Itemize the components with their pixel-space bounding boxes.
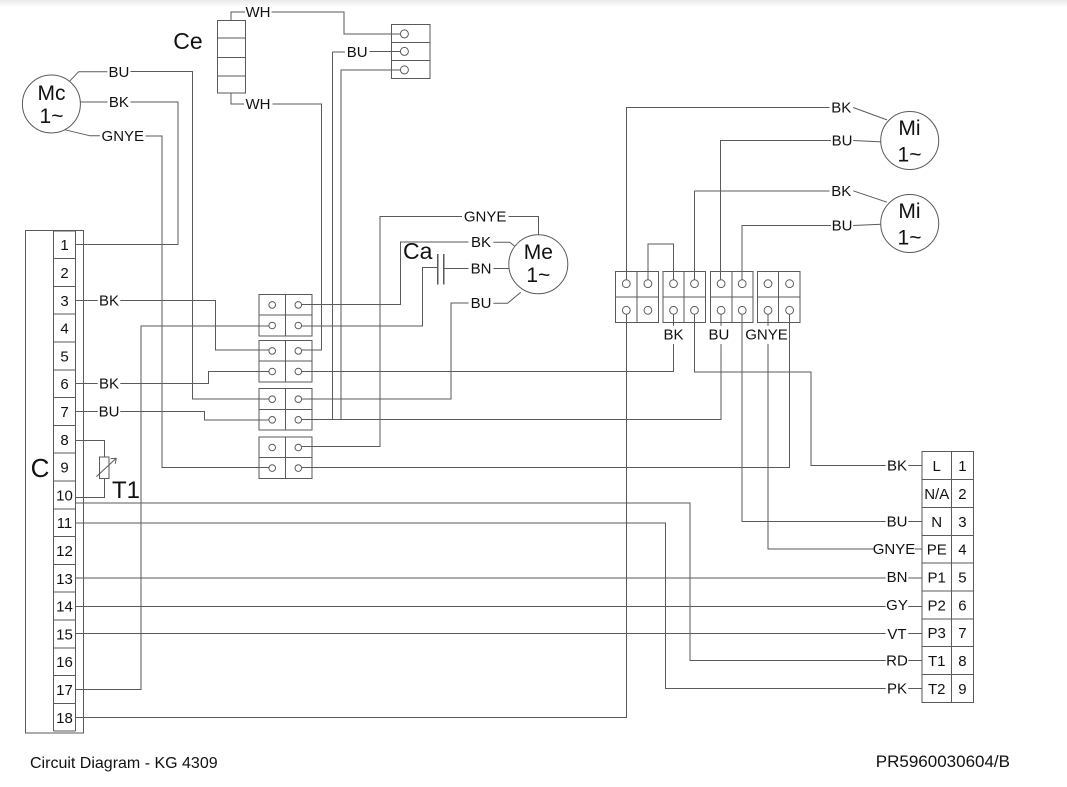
label BK row6 [98,375,121,393]
svg-text:1: 1 [60,237,68,254]
capacitor Ca plates [438,254,444,285]
terminal block TB3 [259,389,312,431]
label PK [886,680,909,698]
svg-text:GY: GY [886,597,908,614]
wire C row11 to PK T2-9 [76,523,923,689]
svg-text:9: 9 [958,681,966,698]
svg-text:8: 8 [60,432,68,449]
label BU at Mi1 [832,133,853,150]
wire TB1 pin2 to T1 net (row17) [76,326,270,690]
wire TB4 pin4 to block D riser [302,314,790,467]
connector CN1 (3 pins) [392,25,430,79]
label GNYE at Mc [102,128,145,145]
wire WH bottom run (to TB2 pin) [273,104,322,350]
svg-text:2: 2 [60,265,68,282]
wire C row13 to BN P1-5 [76,577,923,579]
wire Mc GNYE run (down to TB4) [146,136,269,468]
wire block B right to BK L1 [695,314,923,465]
svg-text:BU: BU [832,218,853,235]
svg-text:4: 4 [958,542,966,559]
wire TB4 pin2-right to GNYE Me [302,217,462,447]
svg-text:3: 3 [60,293,68,310]
label BK row3 [98,292,121,310]
wire Mc BK run (to C row1) [76,102,179,245]
label BK at Me [471,234,491,251]
motor Mi2 circle [881,195,939,253]
wire T1 to C row10 [76,478,105,497]
wire BU Mi2 right [853,224,881,225]
strip C pin numbers 1-18 [56,237,73,727]
svg-text:BK: BK [99,292,119,309]
svg-text:6: 6 [958,597,966,614]
terminal block TB2 [259,340,312,382]
svg-text:15: 15 [56,626,73,643]
motor Me circle [509,235,568,294]
svg-text:Me: Me [524,241,553,264]
svg-text:GNYE: GNYE [102,128,145,145]
wire C row8 to T1 [76,441,105,458]
svg-text:6: 6 [60,376,68,393]
label GNYE at Me [464,209,507,226]
svg-text:9: 9 [60,460,68,477]
wire block D left to GNYE PE4 [768,314,922,549]
svg-text:5: 5 [958,570,966,587]
wire C row15 to VT P3-7 [76,633,923,635]
caption right [876,752,1010,771]
svg-text:WH: WH [246,96,271,113]
wire BU to Me [493,292,520,303]
label Ca [403,238,433,264]
svg-text:Mi: Mi [898,117,920,140]
svg-text:Ca: Ca [403,238,433,264]
wire CN1 pin3 drop (to BU rail) [341,70,400,420]
svg-text:1~: 1~ [40,105,64,128]
svg-text:BU: BU [887,513,908,530]
wire BU top vertical [333,51,345,53]
wire Mc BU run (down to TB3) [130,72,269,399]
svg-text:BU: BU [347,44,368,61]
svg-text:P3: P3 [928,625,946,642]
label RD [886,652,909,670]
motor Mc circle [22,75,80,133]
svg-text:13: 13 [56,571,73,588]
svg-text:BU: BU [108,64,129,81]
svg-text:N: N [931,514,942,531]
wire GNYE to Me [508,217,538,235]
wire TB1 pin2-right to capacitor [302,268,438,326]
svg-text:T2: T2 [928,681,946,698]
wire C row6 BK to TB2 pin3 [76,372,270,384]
svg-text:BU: BU [99,404,120,421]
strip numbers 1-9 [958,458,966,698]
svg-text:11: 11 [57,515,73,532]
wire Mc BK lead [80,101,107,103]
svg-text:T1: T1 [928,653,946,670]
svg-text:17: 17 [56,682,73,699]
svg-text:PR5960030604/B: PR5960030604/B [876,752,1010,771]
wire TB3 pin2-right to BU Me [302,303,469,399]
thermistor T1 body [96,457,116,478]
svg-text:BK: BK [109,94,129,111]
label BU top [347,44,368,61]
label BK at Mi2 [831,183,851,200]
terminal block D [757,271,800,322]
wire C row7 BU to TB3 pin3 [76,412,270,421]
svg-text:RD: RD [886,653,908,670]
label BU at Mi2 [832,218,853,235]
svg-text:5: 5 [60,348,68,365]
wire capacitor to BN [445,268,469,270]
svg-text:BK: BK [663,327,683,344]
label BU at Mc [108,64,129,81]
svg-text:C: C [31,453,50,483]
wire block C2 right to BU N3 [742,314,922,521]
svg-text:BK: BK [471,234,491,251]
svg-text:BU: BU [708,327,729,344]
label Mi1 [898,117,922,166]
wire BU top drop (to BU rail) [332,52,334,420]
svg-text:1~: 1~ [526,264,550,287]
wire block B left drop (to TB2 net) [673,314,675,372]
label T1 [112,477,140,504]
label Me [524,241,553,287]
wire Mc GNYE lead [65,130,100,136]
svg-text:T1: T1 [112,477,140,504]
svg-text:7: 7 [958,625,966,642]
svg-text:P2: P2 [928,597,946,614]
svg-text:P1: P1 [928,570,946,587]
label BU at Me [471,295,492,312]
wire bridge A-B [648,244,674,280]
label VT [886,625,909,643]
svg-text:GNYE: GNYE [873,541,916,558]
svg-text:2: 2 [958,486,966,503]
terminal block A [616,271,659,322]
wire BU Mi2 left [742,226,831,280]
label GNYE under block D [745,326,788,344]
label BN [886,568,909,586]
strip labels L..T2 [924,458,949,698]
wire TB2 pin4 to right (BU rail riser) [302,314,674,372]
svg-text:GNYE: GNYE [745,327,788,344]
wire Mc BU lead [70,72,108,82]
svg-text:BK: BK [887,458,907,475]
svg-text:L: L [933,458,941,475]
wire BK Mi2 left [695,191,830,280]
label Ce [173,28,202,54]
svg-text:1: 1 [958,458,966,475]
wire BK to Me [493,242,517,248]
label BK at L1 [886,457,909,475]
svg-text:16: 16 [56,654,73,671]
wire WH top run [272,12,401,34]
svg-text:1~: 1~ [898,144,922,167]
label BU under block C2 [708,326,731,344]
wire BU top to CN1 pin2 [370,51,401,53]
terminal block TB4 [259,437,312,479]
label Mi2 [898,200,922,249]
capacitor/suppressor Ce [218,21,246,93]
wire BU rail (TB3 pin4 across to block C) [302,314,721,419]
label BK at Mc [109,94,129,111]
svg-text:Mi: Mi [898,200,920,223]
label Mc [38,82,66,128]
svg-text:Mc: Mc [38,82,66,105]
terminal block B [663,271,706,322]
svg-text:18: 18 [56,710,73,727]
wire block A to C row18 [76,314,627,717]
wire BU Mi1 right [853,141,881,142]
label WH bottom [246,96,271,113]
svg-text:VT: VT [887,626,906,643]
terminal block TB1 [259,294,312,336]
label BU row7 [98,403,121,421]
wire WH top (Ce to connector) [231,12,245,21]
wire WH bottom stub [231,93,244,104]
label BK at Mi1 [831,100,851,117]
wire C row10 to RD T1-8 [76,503,923,661]
svg-text:BK: BK [831,183,851,200]
wire TB1 pin1-right to BK Me [302,242,469,304]
svg-text:Ce: Ce [173,28,202,54]
svg-text:Circuit Diagram - KG 4309: Circuit Diagram - KG 4309 [30,755,218,772]
svg-text:PK: PK [887,681,907,698]
svg-text:BK: BK [831,100,851,117]
connector strip C outline [25,231,83,734]
svg-text:BK: BK [99,376,119,393]
svg-text:8: 8 [958,653,966,670]
svg-text:10: 10 [56,487,73,504]
motor Mi1 circle [881,112,939,170]
caption left [30,755,218,772]
svg-text:BU: BU [832,133,853,150]
svg-text:GNYE: GNYE [464,209,507,226]
label C [31,453,50,483]
wire BU Mi1 left [721,141,831,280]
wire C row3 BK to TB2 pin1 [76,300,270,350]
svg-text:4: 4 [60,321,68,338]
svg-text:14: 14 [56,599,73,616]
svg-text:PE: PE [927,542,947,559]
terminal block C2 [711,271,754,322]
svg-text:7: 7 [60,404,68,421]
label BN at Me [471,261,492,278]
wire BN to Me [493,268,509,270]
svg-text:12: 12 [56,543,73,560]
terminal strip L-N-PE outline [922,452,974,703]
wire BK Mi1 left [626,108,829,280]
svg-text:3: 3 [958,514,966,531]
wire BK Mi1 right [853,108,887,120]
svg-text:BN: BN [471,261,492,278]
label BK under block B [662,326,685,344]
svg-text:BN: BN [887,569,908,586]
svg-text:N/A: N/A [924,486,949,503]
svg-text:1~: 1~ [898,227,922,250]
label GNYE at PE4 [873,540,916,558]
label GY [886,596,909,614]
label WH top [246,4,271,21]
svg-text:WH: WH [246,4,271,21]
svg-text:BU: BU [471,295,492,312]
wire C row14 to GY P2-6 [76,606,923,608]
wire BK Mi2 right [853,191,887,202]
label BU at N3 [886,513,909,531]
